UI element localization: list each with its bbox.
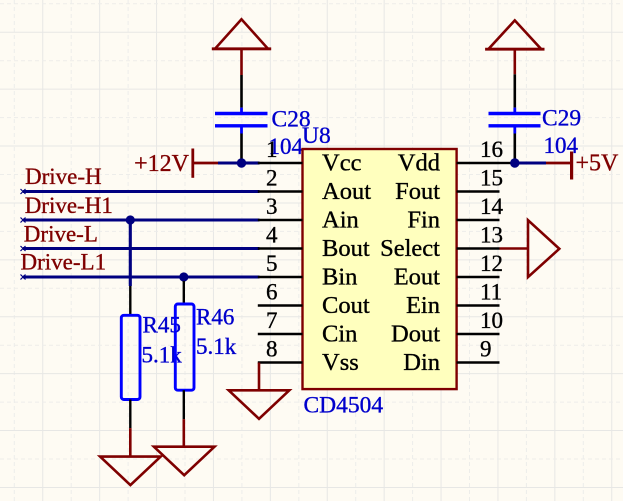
wire stem to C29 (black): [513, 74, 516, 107]
pin number 4: [266, 223, 278, 248]
pin 2 stub: [258, 190, 303, 193]
pin name Ain: [322, 207, 359, 234]
ground symbol (Vss pin 8): [229, 390, 290, 419]
pin name Bout: [322, 235, 370, 262]
label U8: [302, 123, 331, 149]
junction node pin16/C29/+5V: [510, 158, 519, 167]
pin number 2: [266, 166, 278, 191]
svg-text:8: 8: [266, 337, 278, 362]
pin name Fout: [395, 178, 440, 205]
svg-text:R46: R46: [196, 305, 234, 330]
pin number 12: [480, 251, 503, 276]
pin 12 stub: [457, 276, 500, 279]
pin number 9: [480, 337, 492, 362]
pin number 1: [266, 137, 278, 162]
wire Vss to ground (maroon): [258, 363, 261, 391]
pin name Vss: [322, 349, 359, 376]
wire pin 13 to arrow (maroon): [500, 247, 529, 250]
junction node Drive-L1/R46: [179, 272, 188, 281]
svg-text:14: 14: [480, 194, 504, 219]
svg-text:Fout: Fout: [395, 178, 440, 205]
svg-text:Drive-H1: Drive-H1: [25, 193, 113, 218]
pin number 6: [266, 280, 278, 305]
svg-text:+12V: +12V: [134, 151, 190, 177]
pin 9 stub: [457, 361, 500, 364]
pin name Cout: [322, 292, 370, 319]
pin 7 stub: [258, 333, 303, 336]
pin name Select: [380, 235, 440, 262]
label 104 (C29): [544, 133, 579, 158]
svg-text:+5V: +5V: [576, 151, 620, 177]
svg-text:Dout: Dout: [391, 321, 440, 348]
svg-text:104: 104: [544, 133, 579, 158]
label C29: [542, 106, 581, 132]
svg-text:U8: U8: [302, 123, 331, 149]
pin name Bin: [322, 264, 357, 291]
label C28: [272, 107, 311, 133]
pin name Aout: [322, 178, 371, 205]
wire R46 to ground (maroon): [183, 419, 186, 447]
label +5V: [576, 151, 620, 177]
ground symbol (R46): [154, 447, 215, 476]
pin number 3: [266, 194, 278, 219]
svg-text:Ain: Ain: [322, 207, 359, 234]
svg-text:Bout: Bout: [322, 235, 370, 262]
svg-text:16: 16: [480, 137, 503, 162]
svg-text:3: 3: [266, 194, 278, 219]
wire net Drive-H: [21, 189, 260, 194]
wire +5V stem (maroon): [513, 49, 516, 74]
svg-text:15: 15: [480, 166, 503, 191]
svg-text:2: 2: [266, 166, 278, 191]
pin number 5: [266, 251, 278, 276]
label 5.1k (R46): [196, 334, 237, 359]
wire node to +5V port (navy): [519, 161, 546, 164]
pin number 13: [480, 223, 503, 248]
wire C29 top lead (blue): [513, 108, 516, 114]
power symbol VCC arrow (left): [212, 19, 271, 49]
wire R45 bottom lead (black): [129, 400, 131, 429]
svg-text:6: 6: [266, 280, 278, 305]
wire node to pin 1 (navy): [244, 161, 260, 164]
wire R46 drop (navy): [182, 277, 185, 281]
ground symbol (R45): [100, 457, 161, 486]
wire net Drive-L1: [21, 275, 260, 280]
svg-text:9: 9: [480, 337, 492, 362]
power port +12V bar: [193, 149, 220, 178]
pin 6 stub: [258, 304, 303, 307]
pin 8 stub: [258, 361, 303, 364]
net label Drive-H: [25, 164, 102, 189]
pin name Eout: [394, 264, 440, 291]
net label Drive-L1: [21, 250, 107, 275]
power port +5V bar: [546, 152, 572, 180]
svg-text:Din: Din: [403, 349, 440, 376]
svg-text:12: 12: [480, 251, 503, 276]
junction node pin1/C28/+12V: [237, 158, 246, 167]
pin 14 stub: [457, 219, 500, 222]
svg-text:10: 10: [480, 308, 503, 333]
svg-text:4: 4: [266, 223, 278, 248]
svg-text:5: 5: [266, 251, 278, 276]
label R45: [143, 313, 181, 338]
pin 10 stub: [457, 333, 500, 336]
pin 4 stub: [258, 247, 303, 250]
svg-text:Select: Select: [380, 235, 440, 262]
svg-text:7: 7: [266, 308, 278, 333]
pin 15 stub: [457, 190, 500, 193]
label R46: [196, 305, 234, 330]
label 5.1k (R45): [142, 343, 183, 368]
svg-text:Ein: Ein: [406, 292, 440, 319]
svg-text:Cout: Cout: [322, 292, 370, 319]
wire net Drive-H1: [21, 218, 260, 223]
pin 13 stub: [457, 247, 500, 250]
output arrow (pin 13): [528, 220, 559, 277]
op-amp U1 IC body U8 CD4504: [303, 149, 457, 389]
pin name Vdd: [398, 150, 440, 177]
svg-text:Vss: Vss: [322, 349, 359, 376]
pin number 8: [266, 337, 278, 362]
svg-text:Drive-L: Drive-L: [24, 222, 98, 247]
wire R45 to ground (maroon): [129, 428, 132, 457]
svg-text:5.1k: 5.1k: [196, 334, 237, 359]
net label Drive-L: [24, 222, 98, 247]
resistor R45: [121, 315, 140, 399]
capacitor C28: [215, 114, 268, 134]
svg-text:Vcc: Vcc: [322, 150, 362, 177]
net label Drive-H1: [25, 193, 113, 218]
junction node Drive-H1/R45: [126, 215, 135, 224]
svg-text:1: 1: [266, 137, 278, 162]
wire R46 top lead (black): [183, 281, 185, 304]
svg-text:Drive-H: Drive-H: [25, 164, 102, 189]
power symbol VCC arrow (right): [485, 20, 544, 49]
svg-text:CD4504: CD4504: [304, 393, 384, 419]
wire net Drive-L: [21, 246, 260, 251]
svg-text:13: 13: [480, 223, 503, 248]
wire +12V to node (navy): [218, 161, 246, 164]
pin number 15: [480, 166, 503, 191]
svg-text:Drive-L1: Drive-L1: [21, 250, 107, 275]
svg-text:Fin: Fin: [407, 207, 440, 234]
pin 3 stub: [258, 219, 303, 222]
pin 5 stub: [258, 276, 303, 279]
svg-text:Vdd: Vdd: [398, 150, 440, 177]
pin 16 stub: [457, 162, 500, 165]
pin name Ein: [406, 292, 440, 319]
pin name Din: [403, 349, 440, 376]
svg-text:C29: C29: [542, 106, 581, 132]
pin 1 stub: [258, 162, 303, 165]
pin number 14: [480, 194, 504, 219]
wire C29 bottom to node (black): [513, 134, 516, 161]
resistor R46: [175, 304, 194, 390]
wire VCC stem to C28 (black): [240, 75, 243, 108]
wire C28 top lead (blue): [240, 108, 243, 114]
pin number 11: [480, 280, 502, 305]
wire R45 top lead (black): [129, 286, 131, 315]
wire R45 drop (navy): [129, 220, 132, 286]
pin name Vcc: [322, 150, 362, 177]
label CD4504: [304, 393, 384, 419]
wire VCC stem (maroon): [240, 49, 243, 75]
pin number 10: [480, 308, 503, 333]
svg-text:Bin: Bin: [322, 264, 357, 291]
pin name Dout: [391, 321, 440, 348]
pin 11 stub: [457, 304, 500, 307]
capacitor C29: [489, 114, 541, 134]
wire pin16 to node (black): [500, 162, 515, 164]
pin name Cin: [322, 321, 357, 348]
wire C28 bottom to node (black): [240, 134, 243, 161]
label +12V: [134, 151, 190, 177]
svg-text:11: 11: [480, 280, 502, 305]
label 104 (C28): [269, 134, 304, 159]
svg-text:Eout: Eout: [394, 264, 440, 291]
pin name Fin: [407, 207, 440, 234]
svg-text:Aout: Aout: [322, 178, 371, 205]
svg-text:Cin: Cin: [322, 321, 357, 348]
pin number 16: [480, 137, 503, 162]
pin number 7: [266, 308, 278, 333]
wire R46 bottom lead (black): [183, 390, 185, 419]
